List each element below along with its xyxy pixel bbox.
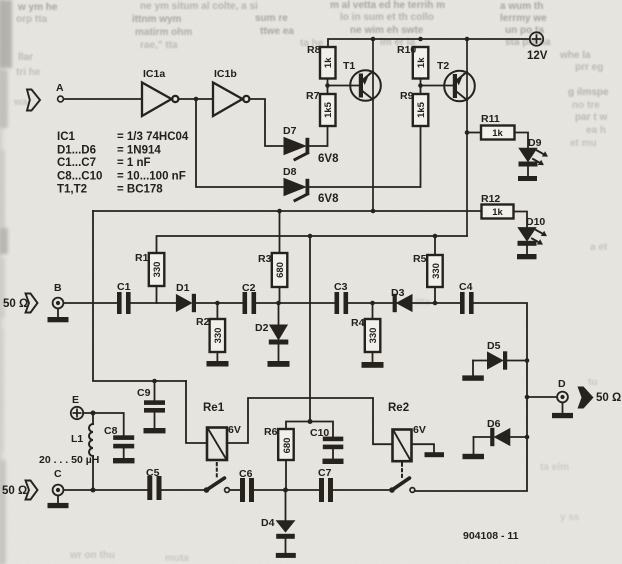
svg-text:D6: D6 (487, 418, 501, 430)
svg-text:IC1b: IC1b (214, 68, 237, 80)
wire D8 cathode to R9 (309, 126, 420, 187)
zener diode D7 (284, 138, 309, 160)
svg-text:R8: R8 (307, 44, 321, 56)
wire R5 top stub (434, 236, 436, 255)
svg-text:1k: 1k (323, 57, 334, 68)
LED D10 (518, 228, 547, 254)
svg-text:g ilmspe: g ilmspe (568, 87, 609, 98)
node T1 base (325, 83, 330, 88)
svg-text:w ym he: w ym he (17, 2, 58, 13)
wire left vertical from rail1 (93, 211, 186, 381)
svg-text:A: A (56, 82, 64, 94)
svg-text:no tre: no tre (572, 100, 600, 111)
wire B to C1 (63, 302, 117, 304)
svg-text:ittnm wym: ittnm wym (132, 14, 182, 25)
resistor R12 (482, 205, 514, 219)
svg-text:C10: C10 (310, 427, 329, 439)
wire base T1 (328, 79, 359, 95)
ground for D5 (462, 375, 484, 380)
wire C2 to C3 (256, 302, 334, 304)
input terminal B (53, 298, 64, 309)
diode D1 (176, 294, 196, 312)
svg-text:E: E (72, 394, 79, 406)
ground for C8 (113, 458, 135, 463)
node D terminal (525, 395, 530, 400)
svg-text:a et: a et (590, 242, 608, 253)
resistor R10 (413, 47, 429, 79)
svg-text:D7: D7 (283, 125, 297, 137)
svg-text:R3: R3 (258, 253, 272, 265)
svg-text:whe la: whe la (559, 50, 591, 61)
svg-text:R4: R4 (351, 317, 365, 329)
svg-text:R7: R7 (306, 90, 320, 102)
op-amp inverter IC1b (213, 83, 249, 117)
node D5 (525, 358, 530, 363)
wire R11 to D9 (515, 133, 529, 149)
ground for R2 (207, 361, 229, 367)
wire relay drive rail (227, 398, 393, 444)
capacitor C2 (243, 292, 257, 314)
relay coil Re1 (207, 428, 227, 461)
svg-text:C3: C3 (334, 281, 348, 293)
svg-text:sum re: sum re (255, 13, 288, 24)
wire base T2 (421, 79, 453, 95)
resistor R2 (210, 303, 226, 361)
svg-text:wa: wa (13, 97, 28, 108)
svg-text:D9: D9 (528, 137, 542, 149)
relay coil Re2 (393, 430, 412, 462)
svg-text:wr on thu: wr on thu (69, 550, 115, 561)
svg-text:R10: R10 (397, 44, 416, 56)
dotted link Re1 (216, 463, 218, 479)
svg-text:330: 330 (368, 328, 379, 344)
svg-text:6V8: 6V8 (318, 153, 339, 165)
arrow input A (27, 90, 40, 111)
svg-text:par t w: par t w (575, 112, 607, 123)
wire A to IC1a (63, 98, 142, 100)
svg-text:IC1a: IC1a (143, 68, 165, 80)
node R5 bottom (433, 301, 438, 306)
svg-text:C4: C4 (459, 281, 473, 293)
node rail2 x310 (308, 234, 313, 239)
node E junction (91, 411, 96, 416)
parts list (57, 131, 189, 196)
resistor R6 (278, 422, 310, 491)
svg-text:D4: D4 (261, 517, 275, 529)
capacitor C4 (460, 292, 474, 314)
ground for C9 (144, 428, 166, 433)
svg-text:50 Ω: 50 Ω (596, 392, 621, 404)
wire Re2 coil right to ground (412, 444, 435, 452)
svg-text:50 Ω: 50 Ω (3, 298, 28, 310)
node R6 C10 top (308, 419, 313, 424)
node R4 top (370, 301, 375, 306)
svg-text:330: 330 (431, 263, 442, 279)
svg-text:y ss: y ss (560, 512, 580, 523)
diode D4 (276, 490, 295, 553)
resistor R1 (149, 253, 165, 303)
capacitor C8 (113, 435, 134, 458)
svg-text:D3: D3 (391, 287, 405, 299)
node T2 base (418, 83, 423, 88)
resistor R4 (365, 303, 381, 362)
zener diode D8 (284, 179, 309, 201)
svg-text:904108 - 11: 904108 - 11 (463, 530, 519, 542)
ground for D (552, 402, 573, 418)
wire C to C5 (63, 489, 147, 491)
svg-text:orp tta: orp tta (16, 14, 48, 25)
svg-text:R6: R6 (264, 426, 278, 438)
svg-text:330: 330 (213, 328, 224, 344)
svg-text:= 1 nF: = 1 nF (117, 157, 151, 169)
svg-text:= 1/3 74HC04: = 1/3 74HC04 (117, 131, 189, 143)
node R2 top (215, 301, 220, 306)
transistor T1 (350, 39, 381, 211)
svg-text:1k: 1k (416, 57, 427, 68)
node R6 bottom D4 (283, 488, 288, 493)
node L1 bottom (91, 488, 96, 493)
capacitor C3 (335, 292, 349, 314)
svg-text:D10: D10 (526, 216, 545, 228)
svg-text:D1...D6: D1...D6 (57, 145, 96, 157)
node R3 top on rail (277, 209, 282, 214)
svg-text:llar: llar (18, 52, 33, 63)
svg-text:C9: C9 (137, 387, 151, 399)
wire E to C8 (83, 413, 124, 435)
svg-text:T2: T2 (437, 60, 449, 72)
wire D3 to C4 (412, 302, 460, 304)
ground for D10 (517, 254, 537, 259)
wire IC1a out to IC1b (178, 98, 213, 100)
wire C7 to switch2 (333, 489, 390, 491)
svg-text:C: C (54, 468, 62, 480)
wire top supply rail (328, 39, 530, 47)
ground for D2 (268, 361, 290, 367)
svg-text:C6: C6 (239, 468, 253, 480)
wire D7 cathode to R7 (309, 126, 327, 146)
svg-text:B: B (54, 282, 62, 294)
output terminal D (557, 392, 568, 403)
svg-text:matirm ohm: matirm ohm (135, 27, 192, 38)
svg-text:C1: C1 (117, 281, 131, 293)
wire junction to D8 (196, 99, 284, 187)
svg-text:= BC178: = BC178 (117, 184, 163, 196)
node D6 (525, 435, 530, 440)
svg-text:C1...C7: C1...C7 (57, 157, 96, 169)
arrow input C (26, 481, 38, 500)
svg-text:1k5: 1k5 (416, 101, 427, 118)
svg-text:D: D (558, 378, 566, 390)
wire D1 to C2 (196, 302, 243, 304)
supply terminal +12V (530, 32, 543, 45)
svg-text:a wum th: a wum th (500, 1, 543, 12)
svg-text:= 1N914: = 1N914 (117, 145, 161, 157)
svg-text:lerrmy we: lerrmy we (500, 13, 547, 24)
svg-text:D1: D1 (176, 282, 190, 294)
svg-text:R9: R9 (400, 90, 414, 102)
node T1 emitter on rail (371, 37, 376, 42)
wire C3 to D3 (348, 302, 397, 304)
resistor R5 (427, 255, 443, 303)
svg-text:L1: L1 (71, 433, 83, 445)
node T2 collector to R11 (465, 130, 470, 135)
svg-text:C8: C8 (104, 425, 118, 437)
svg-text:muta: muta (165, 553, 189, 564)
svg-text:T1,T2: T1,T2 (57, 184, 87, 196)
rail collector T2 horizontal (157, 236, 468, 253)
svg-text:D8: D8 (283, 166, 297, 178)
svg-text:6V: 6V (228, 424, 241, 436)
op-amp inverter IC1a (142, 83, 178, 117)
svg-text:lo in sum et th collo: lo in sum et th collo (340, 12, 434, 23)
resistor R8 (320, 47, 336, 79)
svg-text:680: 680 (275, 262, 286, 278)
wire Re1 coil left feed (186, 381, 207, 443)
resistor R7 (320, 94, 336, 126)
svg-text:6V8: 6V8 (318, 193, 339, 205)
svg-text:prr eg: prr eg (575, 62, 603, 73)
capacitor C5 (147, 476, 161, 500)
svg-text:D2: D2 (255, 322, 269, 334)
ground for C (48, 495, 69, 508)
input terminal C (53, 485, 64, 496)
svg-text:= 10...100 nF: = 10...100 nF (117, 171, 186, 183)
svg-text:680: 680 (282, 438, 293, 454)
svg-text:50 Ω: 50 Ω (2, 485, 27, 497)
left page edge shading (0, 0, 9, 564)
svg-text:T1: T1 (343, 60, 355, 72)
svg-text:C5: C5 (146, 467, 160, 479)
svg-text:IC1: IC1 (57, 131, 76, 143)
wire switch1 to C6 (229, 489, 240, 491)
svg-text:C7: C7 (318, 467, 332, 479)
arrow input B (26, 294, 38, 313)
diode D3 (393, 294, 412, 312)
resistor R3 (272, 211, 288, 303)
resistor R11 (481, 126, 515, 140)
capacitor C9 (144, 381, 165, 428)
ground for D4 (276, 553, 296, 558)
svg-text:R12: R12 (481, 193, 500, 205)
svg-text:1k5: 1k5 (323, 101, 334, 118)
svg-text:tu: tu (588, 377, 597, 388)
svg-text:C8...C10: C8...C10 (57, 171, 102, 183)
svg-text:et mu: et mu (570, 138, 597, 149)
arrow output D (578, 387, 594, 409)
diode D6 (474, 428, 528, 454)
ground for C10 (323, 459, 344, 464)
diode D5 (473, 351, 527, 375)
resistor R9 (413, 94, 429, 126)
svg-text:R1: R1 (135, 252, 149, 264)
node C9 top (152, 379, 157, 384)
svg-text:Re2: Re2 (388, 402, 409, 414)
svg-text:rae," tta: rae," tta (140, 40, 178, 51)
node T1 collector on rail (371, 209, 376, 214)
wire rail2 down to relay node (309, 236, 311, 422)
svg-text:ea h: ea h (586, 125, 606, 136)
ground for B (48, 308, 69, 322)
inductor L1 (89, 413, 93, 490)
wire C6 to C7 (254, 489, 319, 491)
svg-text:R2: R2 (196, 316, 210, 328)
terminal E (71, 407, 83, 419)
dotted link Re2 (401, 464, 403, 480)
svg-text:R5: R5 (413, 253, 427, 265)
svg-text:ta elm: ta elm (540, 462, 569, 473)
relay contact switch2 (389, 478, 415, 493)
svg-text:m al vetta ed he terrih m: m al vetta ed he terrih m (330, 0, 445, 11)
svg-text:un po ta: un po ta (505, 25, 544, 36)
wire IC1b out down to D7 (249, 99, 284, 146)
capacitor C1 (117, 292, 131, 314)
svg-text:ne wim eh swte: ne wim eh swte (350, 25, 424, 36)
svg-text:6V: 6V (413, 424, 426, 436)
capacitor C10 (310, 422, 343, 459)
capacitor C7 (319, 478, 333, 502)
wire to R11 (467, 132, 481, 134)
svg-text:tri he: tri he (16, 67, 41, 78)
svg-text:ttwe ea: ttwe ea (260, 26, 294, 37)
ground for Re2 (425, 452, 445, 457)
svg-text:1k: 1k (492, 128, 503, 139)
svg-text:C2: C2 (242, 282, 256, 294)
wire C5 to switch1 (162, 489, 206, 491)
ground for D9 (518, 176, 537, 181)
wire to D terminal (527, 396, 557, 398)
relay contact switch1 (204, 478, 230, 493)
node R10 top on rail (418, 37, 423, 42)
rail collector T1 horizontal (93, 210, 482, 212)
svg-text:12V: 12V (527, 50, 548, 62)
svg-text:R11: R11 (481, 113, 500, 125)
node R5 top (433, 234, 438, 239)
LED D9 (519, 148, 548, 176)
svg-text:20 . . . 50 µH: 20 . . . 50 µH (39, 454, 99, 466)
capacitor C6 (240, 478, 254, 502)
wire R12 to D10 (514, 212, 528, 228)
node D2 top (276, 301, 281, 306)
transistor T2 (444, 39, 475, 236)
svg-text:ne ym situm al colte, a si: ne ym situm al colte, a si (140, 1, 258, 12)
input terminal A (58, 96, 64, 102)
ground for R4 (362, 362, 384, 368)
svg-text:330: 330 (152, 262, 163, 278)
ground for D6 (463, 454, 485, 459)
wire C4 to right vertical (415, 303, 527, 491)
wire C1 to D1 (131, 302, 177, 304)
node T2 emitter on rail (465, 37, 470, 42)
svg-text:D5: D5 (487, 340, 501, 352)
diode D2 (269, 303, 289, 361)
svg-text:Re1: Re1 (203, 402, 225, 414)
svg-text:1k: 1k (492, 207, 503, 218)
node A2 junction between inverters (194, 97, 199, 102)
